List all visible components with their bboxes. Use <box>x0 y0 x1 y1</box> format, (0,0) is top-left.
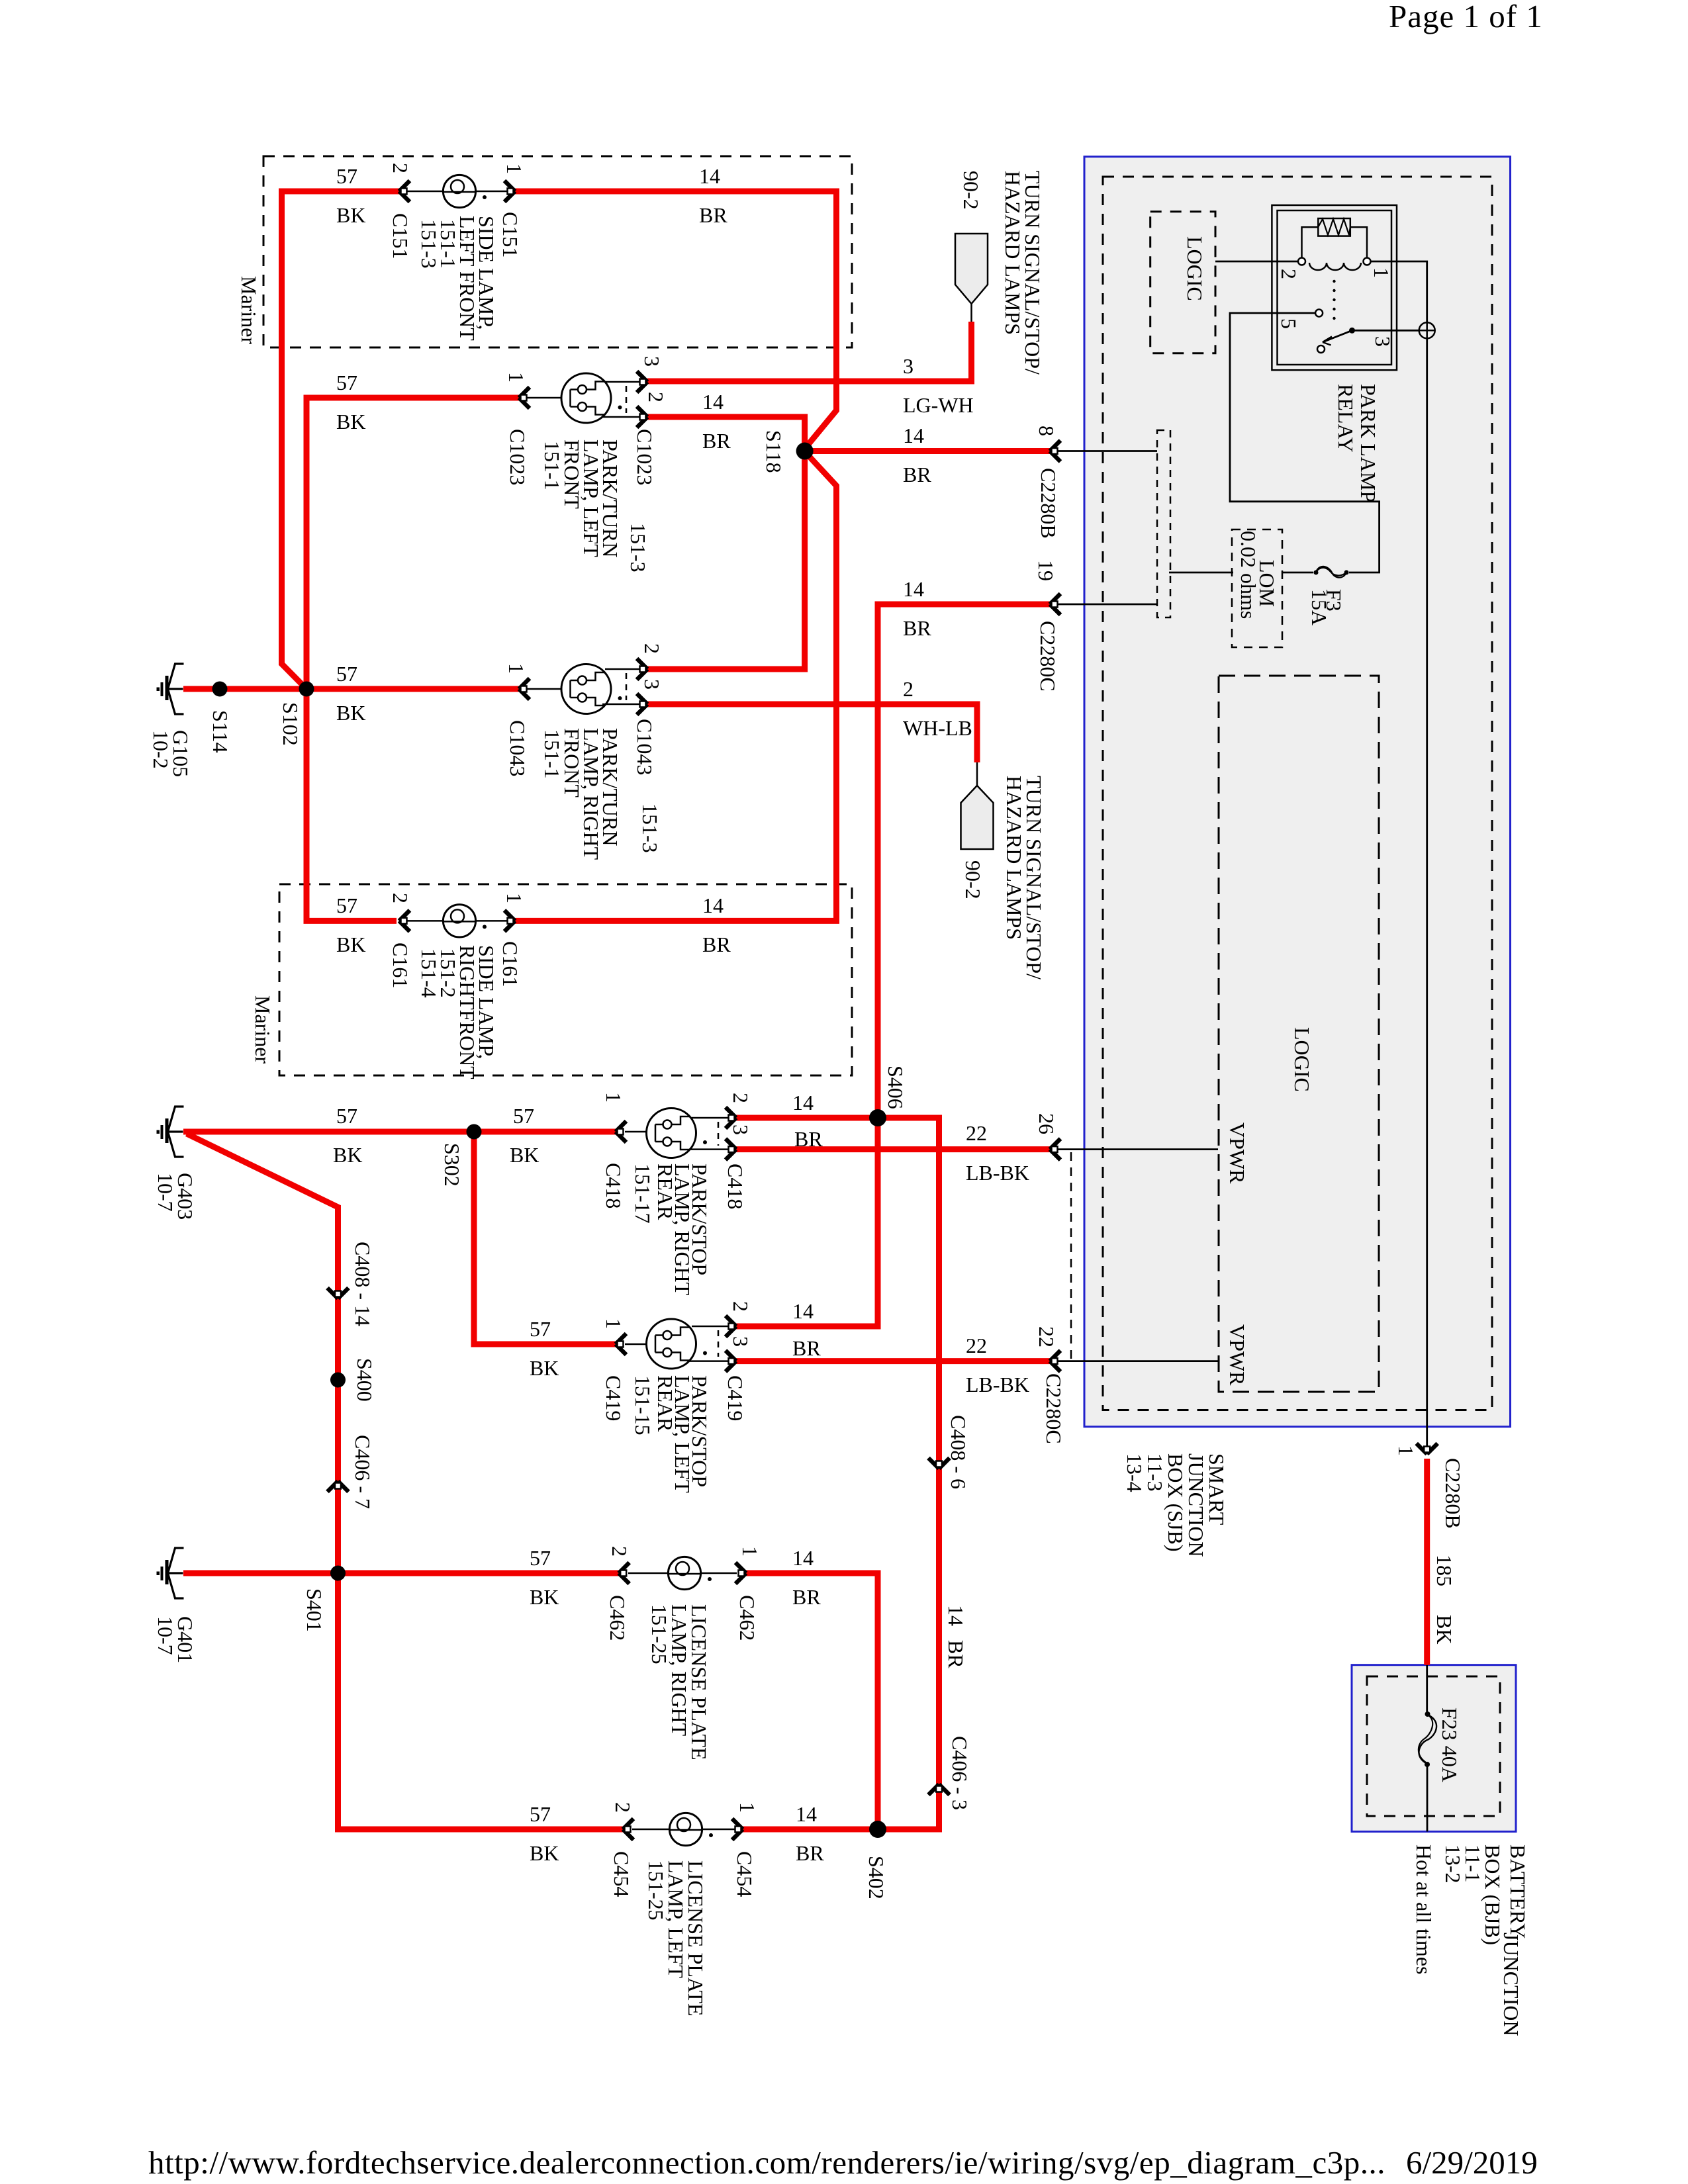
svg-text:C1043: C1043 <box>506 720 530 776</box>
svg-text:0.02 ohms: 0.02 ohms <box>1237 531 1260 619</box>
splice S402 <box>869 1821 886 1838</box>
svg-text:15A: 15A <box>1307 589 1331 625</box>
wire 57 BK C1023 loop to C161 <box>306 398 519 921</box>
svg-text:10-7: 10-7 <box>154 1173 177 1212</box>
svg-text:http://www.fordtechservice.dea: http://www.fordtechservice.dealerconnect… <box>148 2144 1385 2181</box>
connector C2280C pin 22 <box>1058 1360 1218 1362</box>
svg-text:BR: BR <box>792 1336 821 1360</box>
svg-text:JUNCTION: JUNCTION <box>1499 1933 1523 2036</box>
svg-text:1: 1 <box>504 372 528 383</box>
svg-text:BK: BK <box>336 933 365 956</box>
svg-text:1: 1 <box>1370 267 1393 278</box>
svg-text:5: 5 <box>1277 318 1301 329</box>
svg-text:BR: BR <box>796 1841 824 1865</box>
splice S406 <box>869 1109 886 1126</box>
svg-text:2: 2 <box>611 1802 635 1813</box>
svg-text:2: 2 <box>640 643 664 654</box>
relay resistor <box>1318 218 1350 236</box>
splice S401 <box>330 1566 346 1581</box>
wire 14 BR S118 to C2280B-8 <box>805 448 1050 454</box>
svg-text:C418: C418 <box>602 1163 626 1208</box>
lamp C1043 park/turn right front <box>527 669 639 704</box>
svg-text:LB-BK: LB-BK <box>966 1373 1029 1396</box>
lamp C418 park/stop right rear <box>625 1118 728 1150</box>
svg-text:8: 8 <box>1035 426 1058 436</box>
svg-text:C419: C419 <box>724 1375 747 1421</box>
splice S102 <box>299 682 314 697</box>
svg-text:VPWR: VPWR <box>1225 1324 1249 1386</box>
wire 14 BR S406 right leg down to S402 <box>878 1118 939 1829</box>
wire 3 LG-WH C1023 to turn signal stub <box>647 322 972 381</box>
svg-text:2: 2 <box>1277 269 1301 279</box>
svg-text:C2280B: C2280B <box>1037 468 1060 539</box>
wire logic to relay pin2 <box>1215 261 1297 263</box>
lamp C419 park/stop left rear <box>625 1326 728 1361</box>
svg-text:VPWR: VPWR <box>1225 1122 1249 1184</box>
svg-text:14: 14 <box>792 1546 814 1570</box>
svg-text:S118: S118 <box>762 430 786 473</box>
svg-text:57: 57 <box>336 893 357 917</box>
svg-text:14: 14 <box>792 1091 814 1115</box>
svg-text:BK: BK <box>336 410 365 433</box>
wire 185 BK C2280B-1 to battery box <box>1424 1459 1430 1665</box>
wire connector to LOM <box>1169 572 1233 574</box>
svg-text:C408 - 14: C408 - 14 <box>351 1242 375 1326</box>
svg-text:REAR: REAR <box>653 1163 677 1220</box>
logic box large (dashed) <box>1219 676 1379 1392</box>
connector C2280C pin 26 <box>1058 1148 1218 1150</box>
connector C408-6 <box>929 1458 950 1469</box>
wire 57 BK ground G401 to S401 <box>183 1570 338 1576</box>
svg-text:Hot at all times: Hot at all times <box>1412 1844 1436 1974</box>
svg-text:151-1: 151-1 <box>540 441 564 490</box>
svg-text:57: 57 <box>513 1104 534 1128</box>
svg-text:Mariner: Mariner <box>251 995 275 1064</box>
relay coil <box>1298 258 1305 265</box>
wire 14 BR C462 pin1 to S402 <box>746 1573 878 1829</box>
wire 14 BR C1023 pin2 to S118 <box>647 417 805 447</box>
svg-text:C419: C419 <box>602 1375 626 1421</box>
turn signal connector bottom <box>976 762 978 786</box>
splice S114 <box>212 682 228 697</box>
svg-text:26: 26 <box>1035 1113 1058 1134</box>
LOM resistor box (dashed) <box>1232 529 1282 647</box>
battery box internal wire <box>1426 1665 1428 1832</box>
svg-text:C454: C454 <box>733 1851 757 1897</box>
connector C406-3 <box>929 1784 950 1795</box>
svg-text:90-2: 90-2 <box>959 171 983 210</box>
lamp C161 side lamp right front <box>407 920 507 922</box>
svg-text:1: 1 <box>504 663 528 674</box>
svg-text:S102: S102 <box>279 702 303 746</box>
wire 14 BR S118 down to C1043 pin2 <box>647 451 805 670</box>
svg-text:1: 1 <box>735 1802 759 1813</box>
park lamp relay outline <box>1272 205 1397 370</box>
svg-text:BK: BK <box>510 1143 539 1167</box>
svg-text:Mariner: Mariner <box>237 276 261 344</box>
svg-text:S406: S406 <box>884 1066 908 1109</box>
svg-text:3: 3 <box>729 1124 753 1135</box>
wire 57 BK ground G105 row <box>183 686 519 692</box>
svg-text:WH-LB: WH-LB <box>903 716 972 740</box>
svg-text:14: 14 <box>944 1605 968 1626</box>
svg-text:C151: C151 <box>389 213 412 259</box>
svg-text:2: 2 <box>608 1546 632 1557</box>
svg-text:151-3: 151-3 <box>638 803 662 853</box>
svg-text:BR: BR <box>944 1640 968 1668</box>
svg-text:Page 1 of 1: Page 1 of 1 <box>1389 0 1543 34</box>
svg-text:2: 2 <box>389 893 412 903</box>
svg-text:C2280C: C2280C <box>1036 621 1060 692</box>
wire 14 BR side lamp left to S118 <box>515 191 837 446</box>
svg-text:C454: C454 <box>610 1851 633 1897</box>
relay dotted link <box>1333 280 1335 283</box>
svg-text:13-2: 13-2 <box>1441 1844 1465 1884</box>
wire 57 BK G403 down chain to C454 <box>187 1134 623 1829</box>
svg-text:C2280C: C2280C <box>1042 1373 1066 1444</box>
connector C406-7 <box>328 1481 349 1492</box>
connector C2280B pin 8 <box>1058 450 1157 452</box>
svg-text:22: 22 <box>1035 1326 1058 1347</box>
svg-text:BR: BR <box>702 933 731 956</box>
svg-text:BR: BR <box>794 1127 823 1151</box>
svg-text:14: 14 <box>792 1299 814 1323</box>
svg-text:151-25: 151-25 <box>647 1604 671 1664</box>
svg-text:57: 57 <box>530 1802 551 1826</box>
svg-text:BK: BK <box>336 701 365 725</box>
svg-text:1: 1 <box>738 1546 762 1557</box>
lamp C454 license plate left <box>632 1829 735 1831</box>
svg-text:14: 14 <box>702 893 724 917</box>
svg-text:6/29/2019: 6/29/2019 <box>1406 2144 1538 2181</box>
Mariner box top (dashed) <box>263 156 852 347</box>
ground G105 <box>168 664 184 714</box>
svg-text:90-2: 90-2 <box>961 860 985 899</box>
svg-text:1: 1 <box>502 163 526 174</box>
relay switch <box>1349 328 1355 334</box>
wire 57 BK ground G403 row to C418 pin1 <box>183 1129 616 1135</box>
svg-text:BR: BR <box>903 616 931 640</box>
svg-text:S302: S302 <box>440 1143 464 1187</box>
svg-text:C418: C418 <box>724 1163 747 1209</box>
svg-text:PARK LAMP: PARK LAMP <box>1356 384 1380 502</box>
ground G403 <box>168 1107 184 1157</box>
svg-text:151-17: 151-17 <box>631 1163 655 1224</box>
svg-text:C1043: C1043 <box>633 719 657 775</box>
fuse F3 <box>1314 570 1319 575</box>
svg-text:185: 185 <box>1432 1555 1456 1586</box>
svg-text:57: 57 <box>336 371 357 394</box>
wire 57 BK side lamp left to S102 <box>282 191 402 689</box>
svg-text:2: 2 <box>389 163 412 173</box>
node circle-plus <box>1419 322 1435 338</box>
wire 57 BK S302 down to C419 pin1 <box>474 1132 616 1344</box>
splice S400 <box>330 1373 346 1388</box>
svg-text:22: 22 <box>966 1334 987 1357</box>
svg-text:57: 57 <box>530 1317 551 1341</box>
svg-text:14: 14 <box>903 577 924 601</box>
svg-text:14: 14 <box>699 164 720 188</box>
turn signal connector top <box>970 304 972 322</box>
ground G401 <box>168 1548 184 1598</box>
svg-text:14: 14 <box>796 1802 817 1826</box>
svg-text:S402: S402 <box>865 1856 888 1899</box>
lamp C151 side lamp left front <box>407 191 507 193</box>
svg-text:F23 40A: F23 40A <box>1438 1707 1462 1782</box>
svg-text:3: 3 <box>640 679 664 690</box>
svg-text:BK: BK <box>336 203 365 227</box>
svg-text:10-2: 10-2 <box>149 730 173 769</box>
svg-text:151-1: 151-1 <box>540 729 564 779</box>
svg-text:LB-BK: LB-BK <box>966 1161 1029 1185</box>
svg-text:C462: C462 <box>606 1595 630 1641</box>
wire 22 LB-BK C418 pin3 to C2280C-26 <box>736 1146 1050 1152</box>
svg-text:151-3: 151-3 <box>626 523 650 572</box>
svg-text:BK: BK <box>530 1356 559 1380</box>
wire 57 BK S401 to C462 pin2 <box>338 1570 619 1576</box>
svg-text:151-15: 151-15 <box>631 1375 655 1435</box>
relay resistor leads <box>1302 227 1368 257</box>
wire node down to C2280B-1 <box>1426 338 1428 1446</box>
svg-text:C1023: C1023 <box>506 429 530 485</box>
svg-text:BK: BK <box>1432 1615 1456 1644</box>
svg-text:22: 22 <box>966 1121 987 1145</box>
wire 2 WH-LB C1043 pin3 to turn signal stub <box>647 704 977 762</box>
svg-text:14: 14 <box>903 424 924 447</box>
SJB inner dashed box <box>1103 177 1492 1410</box>
wire 22 LB-BK C419 pin3 to C2280C-22 <box>736 1358 1050 1364</box>
connector C2280C pin 19 <box>1058 604 1157 606</box>
svg-text:RELAY: RELAY <box>1334 384 1358 453</box>
svg-text:S401: S401 <box>303 1588 326 1632</box>
svg-text:1: 1 <box>1394 1445 1418 1456</box>
lamp C1023 park/turn left front <box>527 382 639 417</box>
wire relay pin1 to node <box>1371 261 1427 322</box>
svg-text:REAR: REAR <box>653 1375 677 1432</box>
smart junction box SJB (blue) <box>1084 157 1511 1427</box>
svg-text:C161: C161 <box>389 942 412 988</box>
logic box small (dashed) <box>1150 212 1215 353</box>
svg-text:1: 1 <box>502 893 526 903</box>
svg-text:LOGIC: LOGIC <box>1183 236 1207 301</box>
svg-text:BR: BR <box>702 429 731 453</box>
svg-text:3: 3 <box>1371 336 1395 347</box>
svg-text:C462: C462 <box>735 1595 759 1641</box>
connector C2280C dashed line <box>1070 1152 1072 1359</box>
svg-text:BR: BR <box>903 463 931 486</box>
svg-text:BK: BK <box>530 1841 559 1865</box>
svg-text:57: 57 <box>336 662 357 686</box>
svg-text:S400: S400 <box>353 1358 377 1402</box>
connector C2280 dashed box <box>1157 430 1170 617</box>
splice S118 <box>796 443 814 460</box>
svg-text:2: 2 <box>729 1301 753 1312</box>
svg-text:151-4: 151-4 <box>417 948 441 998</box>
svg-text:BK: BK <box>333 1143 362 1167</box>
relay pin 5 contact <box>1315 310 1323 317</box>
svg-text:10-7: 10-7 <box>154 1616 177 1655</box>
svg-text:C161: C161 <box>498 941 522 987</box>
wire LOM to fuse <box>1282 572 1313 574</box>
lamp C462 license plate right <box>628 1572 737 1574</box>
svg-text:S114: S114 <box>209 710 232 753</box>
svg-text:LG-WH: LG-WH <box>903 393 974 417</box>
battery box inner dashed <box>1367 1676 1500 1816</box>
svg-text:BR: BR <box>699 203 727 227</box>
splice S302 <box>467 1124 482 1140</box>
svg-text:3: 3 <box>903 354 914 378</box>
connector C408-14 <box>328 1288 349 1298</box>
svg-text:C406 - 3: C406 - 3 <box>948 1736 972 1810</box>
battery junction box (blue) <box>1352 1665 1516 1832</box>
svg-text:C406 - 7: C406 - 7 <box>351 1435 375 1509</box>
svg-text:57: 57 <box>530 1546 551 1570</box>
svg-text:13-4: 13-4 <box>1123 1453 1147 1492</box>
svg-text:2: 2 <box>644 392 668 402</box>
fuse F23 <box>1425 1711 1430 1717</box>
svg-text:1: 1 <box>602 1092 626 1103</box>
connector C2280B pin 1 bottom <box>1417 1443 1438 1454</box>
svg-text:57: 57 <box>336 164 357 188</box>
svg-text:LOGIC: LOGIC <box>1290 1027 1314 1092</box>
svg-text:151-3: 151-3 <box>417 219 441 269</box>
svg-text:BK: BK <box>530 1585 559 1609</box>
svg-text:C2280B: C2280B <box>1441 1458 1465 1529</box>
svg-text:C1023: C1023 <box>633 429 657 485</box>
wire 14 BR C161 pin1 up to S118 <box>515 455 837 921</box>
wire 14 BR C418 pin2 to S406 <box>736 1115 878 1121</box>
wire switch to node <box>1355 330 1419 332</box>
svg-text:BR: BR <box>792 1585 821 1609</box>
wire relay pin5 to fuse F3 <box>1230 313 1380 572</box>
svg-text:19: 19 <box>1034 560 1058 581</box>
Mariner box bottom (dashed) <box>279 884 852 1075</box>
svg-text:C151: C151 <box>498 212 522 257</box>
svg-text:14: 14 <box>702 390 724 414</box>
svg-text:151-25: 151-25 <box>644 1860 668 1921</box>
svg-text:HAZARD LAMPS: HAZARD LAMPS <box>1001 171 1025 335</box>
wire 14 BR C2280C-19 to S406 to C419 pin2 <box>736 604 1050 1326</box>
svg-text:3: 3 <box>640 356 664 367</box>
svg-text:C408 - 6: C408 - 6 <box>947 1415 970 1489</box>
svg-text:57: 57 <box>336 1104 357 1128</box>
svg-text:2: 2 <box>729 1093 753 1103</box>
wire 14 BR C454 pin1 to S402 <box>743 1827 878 1833</box>
svg-text:2: 2 <box>903 677 914 701</box>
svg-text:3: 3 <box>729 1336 753 1347</box>
svg-text:BATTERY: BATTERY <box>1506 1844 1530 1938</box>
svg-text:HAZARD LAMPS: HAZARD LAMPS <box>1002 776 1026 940</box>
svg-text:1: 1 <box>602 1318 626 1329</box>
